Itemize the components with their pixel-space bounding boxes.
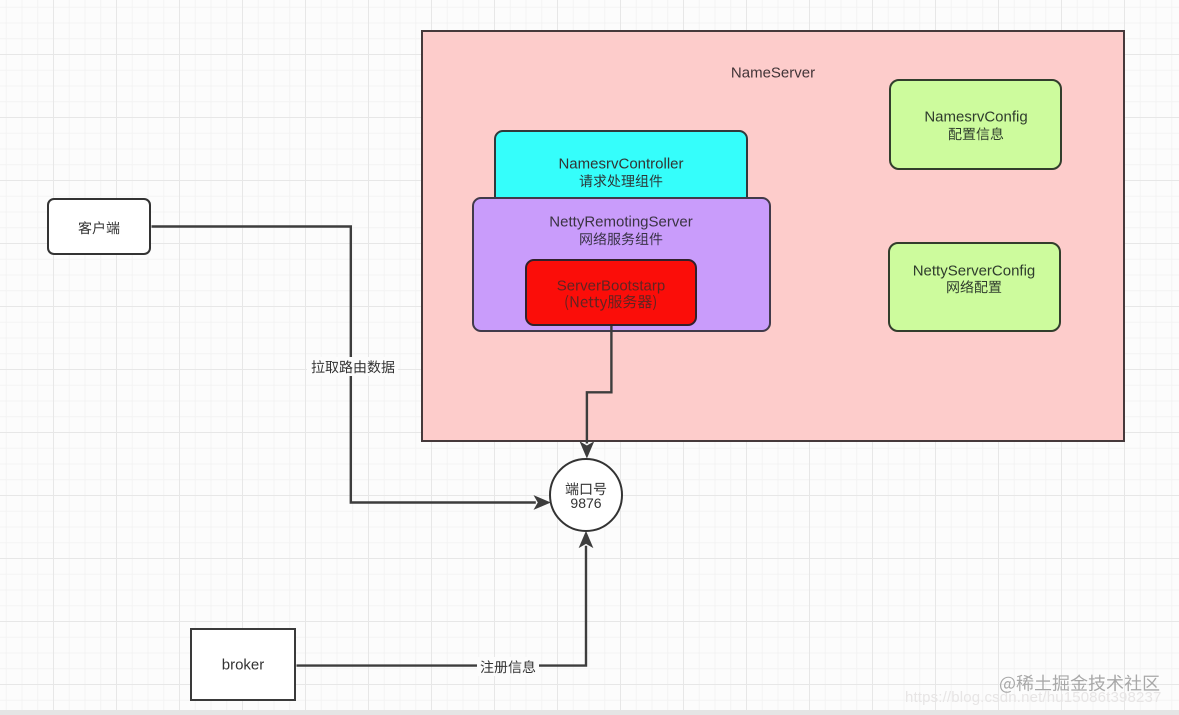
label 配置信息 — [948, 123, 1004, 144]
bottom gray strip — [0, 710, 1179, 715]
label 网络配置 — [946, 276, 1002, 297]
wire ServerBootstarp to circle — [587, 326, 612, 444]
label broker — [222, 657, 265, 674]
wire broker to circle (注册信息) — [297, 546, 587, 666]
label 端口号 — [565, 478, 607, 499]
wire client to circle (拉取路由数据) — [152, 227, 536, 503]
label 网络服务组件 — [579, 228, 663, 249]
label NamesrvConfig — [924, 109, 1027, 126]
NettyRemotingServer box — [472, 197, 771, 332]
label ServerBootstarp — [557, 278, 665, 295]
NettyServerConfig box — [888, 242, 1061, 332]
port circle 端口号9876 — [549, 458, 623, 532]
label 客户端 — [78, 217, 120, 238]
label NamesrvController — [558, 156, 683, 173]
NameServer container box — [421, 30, 1125, 442]
arrowhead into circle bottom — [580, 533, 591, 546]
NamesrvController box — [494, 130, 748, 213]
arrowhead into circle left — [535, 497, 548, 508]
wire label 注册信息 — [480, 656, 536, 677]
wire label 拉取路由数据 — [311, 356, 395, 377]
broker box — [190, 628, 296, 701]
label NettyServerConfig — [913, 263, 1036, 280]
faint url watermark — [905, 689, 1161, 706]
label background 注册信息 — [477, 657, 539, 676]
watermark @稀土掘金技术社区 — [999, 669, 1160, 696]
label (Netty服务器) — [564, 290, 657, 313]
label NettyRemotingServer — [549, 214, 692, 231]
label NameServer — [731, 65, 815, 82]
label 9876 — [570, 495, 601, 511]
label background 拉取路由数据 — [307, 357, 398, 376]
label 请求处理组件 — [579, 170, 663, 191]
ServerBootstarp box — [525, 259, 697, 326]
NamesrvConfig box — [889, 79, 1062, 170]
arrowhead into circle top — [581, 443, 592, 456]
client 客户端 box — [47, 198, 151, 255]
